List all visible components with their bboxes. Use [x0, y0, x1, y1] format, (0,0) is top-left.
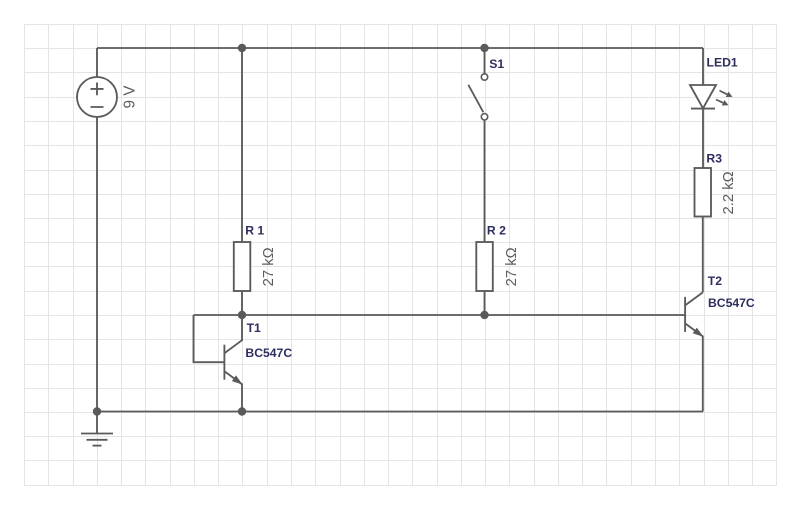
- wire: switch branch from top rail: [484, 48, 486, 74]
- junction: ground node at battery: [93, 407, 101, 415]
- svg-text:27 kΩ: 27 kΩ: [504, 247, 520, 286]
- wire: bottom ground rail: [97, 411, 703, 413]
- svg-text:LED1: LED1: [707, 55, 738, 69]
- wire: R2 to base node: [484, 291, 486, 315]
- svg-text:BC547C: BC547C: [245, 346, 292, 360]
- resistor R1: [234, 242, 251, 291]
- wire: battery positive lead: [96, 48, 98, 77]
- wire: T1 base feedback loop: [194, 315, 225, 362]
- junction: ground rail / T1 emitter: [238, 407, 246, 415]
- svg-text:BC547C: BC547C: [708, 296, 755, 310]
- junction: top rail / switch branch: [480, 44, 488, 52]
- transistor T1: [224, 315, 242, 412]
- LED LED1: [690, 85, 733, 109]
- wire: R1 branch from top rail: [241, 48, 243, 242]
- svg-text:S1: S1: [489, 57, 504, 71]
- svg-text:2.2 kΩ: 2.2 kΩ: [721, 171, 737, 214]
- transistor T2: [685, 292, 703, 411]
- svg-text:T2: T2: [708, 274, 722, 288]
- voltage source V1: [77, 77, 117, 117]
- ground: [81, 412, 113, 446]
- svg-text:T1: T1: [247, 321, 261, 335]
- svg-text:R 1: R 1: [245, 224, 264, 238]
- junction: base bus / R2: [480, 311, 488, 319]
- svg-text:R 2: R 2: [487, 224, 506, 238]
- wire: top supply rail: [97, 47, 703, 49]
- svg-text:27 kΩ: 27 kΩ: [261, 247, 277, 286]
- wire: LED branch from top rail: [702, 48, 704, 85]
- junction: base bus / R1: [238, 311, 246, 319]
- resistor R3: [695, 168, 712, 217]
- wire: R3 to T2 collector: [702, 217, 704, 293]
- wire: battery negative lead: [96, 117, 98, 412]
- svg-text:9 V: 9 V: [121, 85, 138, 109]
- wire: switch to R2: [484, 121, 486, 243]
- switch S1: [468, 74, 487, 120]
- svg-text:R3: R3: [706, 151, 722, 165]
- wire: R1 to base node: [241, 291, 243, 315]
- resistor R2: [476, 242, 493, 291]
- wire: LED cathode to R3: [702, 109, 704, 168]
- junction: top rail / R1 branch: [238, 44, 246, 52]
- wire: base bus: [194, 314, 686, 316]
